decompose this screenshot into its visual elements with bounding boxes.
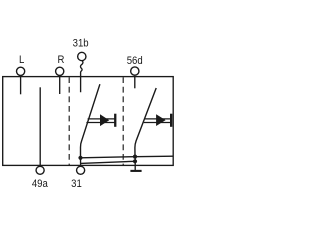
- svg-text:31: 31: [71, 177, 82, 190]
- junction dot 1: [78, 156, 82, 160]
- terminal L circle: [17, 67, 25, 75]
- svg-text:31b: 31b: [73, 37, 89, 50]
- diode D2 triangle: [156, 114, 166, 126]
- wire: ground drop: [134, 157, 136, 170]
- junction dot 3: [133, 159, 137, 163]
- diode D1 cathode bar: [114, 114, 116, 127]
- svg-text:R: R: [57, 53, 64, 66]
- wire: upper bus from switch 1 pivot to right edge: [81, 156, 174, 158]
- wire: L stub: [20, 77, 22, 94]
- diode D1 triangle: [100, 114, 109, 126]
- wire: R stub: [59, 77, 61, 94]
- svg-text:L: L: [19, 53, 24, 66]
- dashed section divider left: [68, 77, 70, 165]
- ground symbol bar: [130, 170, 141, 172]
- svg-text:56d: 56d: [127, 54, 143, 67]
- wire: lower bus from 31 riser to ground drop: [80, 161, 135, 163]
- wire: 49a contact line: [39, 87, 41, 166]
- terminal R circle: [56, 67, 64, 75]
- switch arm 2: [135, 88, 156, 157]
- terminal 56d circle: [131, 67, 139, 75]
- wire: 56d stub: [134, 77, 136, 88]
- svg-text:49a: 49a: [32, 177, 48, 190]
- terminal 31 circle: [77, 166, 85, 174]
- wire: 31b squiggle lead: [80, 61, 82, 92]
- terminal 31b circle: [78, 52, 86, 60]
- terminal 49a circle: [36, 166, 44, 174]
- diode D2 anode twin lines: [145, 118, 171, 120]
- diode D1 anode twin lines: [88, 118, 115, 120]
- junction dot 2: [133, 155, 137, 159]
- wire: 31 riser: [80, 158, 82, 166]
- switch arm 1: [81, 84, 100, 158]
- diode D2 cathode bar: [170, 114, 172, 127]
- component box: [3, 77, 174, 166]
- dashed section divider right: [122, 77, 124, 165]
